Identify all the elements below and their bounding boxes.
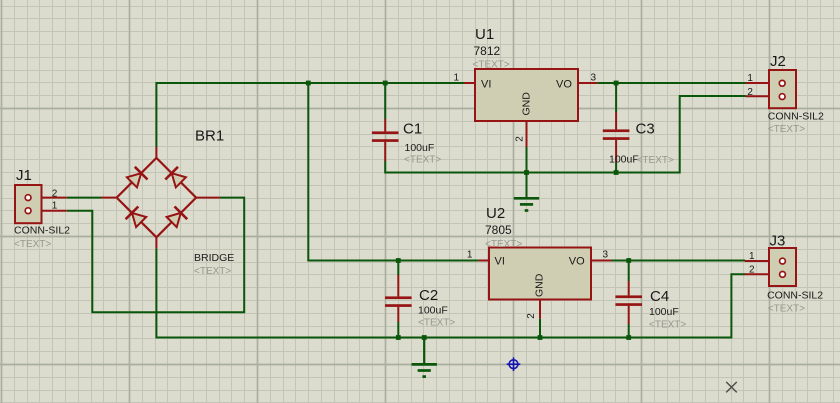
svg-text:7812: 7812 [474,44,501,58]
wire J1 pin1 to bridge right (AC2 net) [67,198,244,313]
svg-text:<TEXT>: <TEXT> [637,155,674,166]
svg-text:<TEXT>: <TEXT> [14,239,51,250]
junction C2 bottom [396,335,401,340]
svg-text:<TEXT>: <TEXT> [485,239,522,250]
ground symbol below U1 [514,173,539,211]
capacitor C1 [372,119,399,161]
diode D4 (- to AC2) of BR1 [167,207,188,228]
wire J1 pin2 to bridge left (AC1 net) [67,197,102,199]
junction +V rail / U2 feed [306,81,311,86]
bridge rectifier BR1 diamond body [117,158,196,237]
connector J1 CONN-SIL2 [15,185,67,223]
svg-text:<TEXT>: <TEXT> [768,124,805,135]
junction C4 top [626,258,631,263]
svg-text:3: 3 [603,250,609,261]
capacitor C4 [615,281,642,324]
svg-text:1: 1 [747,73,753,84]
junction U1 GND / upper ground rail [524,170,529,175]
wire upper ground rail C1 to J2 pin2 [385,96,745,173]
svg-text:U1: U1 [475,26,494,43]
svg-text:J1: J1 [16,167,32,184]
junction C4 bottom [626,335,631,340]
svg-text:1: 1 [749,251,755,262]
junction C3 top / J2 pin1 [614,81,619,86]
wire U1 VO to J2 pin1 (+12V net) [597,82,745,84]
svg-text:1: 1 [467,250,473,261]
svg-text:GND: GND [534,273,546,297]
wire C3 bottom lead [615,162,617,173]
wire +V rail branch down to U2 VI [308,83,478,261]
svg-text:C4: C4 [650,288,669,305]
wire lower ground rail bridge bottom to J3 pin2 [156,248,745,337]
svg-text:<TEXT>: <TEXT> [418,317,455,328]
svg-text:<TEXT>: <TEXT> [768,303,805,314]
regulator U1 7812 pin stubs [464,83,597,147]
svg-text:1: 1 [52,201,58,212]
svg-text:CONN-SIL2: CONN-SIL2 [768,110,824,122]
junction ground symbol [422,335,427,340]
regulator U1 7812 body [475,69,578,121]
svg-text:<TEXT>: <TEXT> [473,59,510,70]
svg-text:BR1: BR1 [195,128,224,145]
svg-text:2: 2 [515,136,526,142]
junction C2 top [396,258,401,263]
bridge rectifier BR1 pin stubs [102,147,220,248]
svg-text:2: 2 [526,313,537,319]
connector J2 CONN-SIL2 [746,70,797,108]
svg-text:7805: 7805 [485,223,512,237]
regulator U2 7805 body [489,248,591,300]
svg-text:<TEXT>: <TEXT> [194,266,231,277]
svg-text:100uF: 100uF [609,153,639,165]
ground symbol on lower rail [412,338,437,377]
wire C2 bottom lead [397,322,399,338]
junction U2 GND [538,335,543,340]
diode D1 (AC1 to +) of BR1 [127,167,148,188]
svg-text:100uF: 100uF [405,142,435,154]
wire bridge top to U1 VI (+V rail) [156,83,464,147]
svg-text:BRIDGE: BRIDGE [194,252,234,264]
wire U2 VO to J3 pin1 (+5V net) [612,260,746,262]
sheet origin marker (blue crosshair) [507,357,521,371]
svg-text:GND: GND [520,92,532,116]
svg-text:100uF: 100uF [418,304,448,316]
svg-text:CONN-SIL2: CONN-SIL2 [14,225,70,237]
svg-text:CONN-SIL2: CONN-SIL2 [767,290,823,302]
regulator U2 7805 pin stubs [479,261,612,319]
svg-text:C1: C1 [403,121,422,138]
wire C2 top lead [397,261,399,276]
svg-text:1: 1 [454,73,460,84]
svg-text:VI: VI [481,79,491,91]
capacitor C2 [385,275,412,322]
svg-text:VI: VI [495,256,505,268]
wire C4 bottom lead [628,324,630,338]
junction C3 bottom [614,170,619,175]
svg-text:3: 3 [591,73,597,84]
svg-text:VO: VO [556,79,572,91]
X marker bottom right [726,382,737,393]
svg-text:VO: VO [569,256,585,268]
wire C3 top lead [615,83,617,112]
svg-text:2: 2 [747,87,753,98]
svg-text:J2: J2 [770,53,786,70]
diode D3 (- to AC1) of BR1 [126,207,147,228]
svg-text:100uF: 100uF [649,306,679,318]
svg-text:<TEXT>: <TEXT> [404,154,441,165]
svg-text:C3: C3 [636,121,655,138]
svg-text:J3: J3 [770,233,786,250]
wire ground symbol stem lower rail [423,338,425,364]
svg-text:<TEXT>: <TEXT> [649,320,686,331]
svg-text:U2: U2 [486,205,505,222]
svg-text:2: 2 [749,265,755,276]
diode D2 (AC2 to +) of BR1 [165,167,186,188]
wire U2 GND lead [539,319,541,338]
capacitor C3 [603,112,630,162]
connector J3 CONN-SIL2 [745,248,796,286]
wire C1 top lead [384,83,386,119]
junction C1 top [383,81,388,86]
svg-text:2: 2 [52,188,58,199]
wire U1 GND lead to ground [526,147,528,198]
svg-text:C2: C2 [419,287,438,304]
wire C4 top lead [628,261,630,282]
